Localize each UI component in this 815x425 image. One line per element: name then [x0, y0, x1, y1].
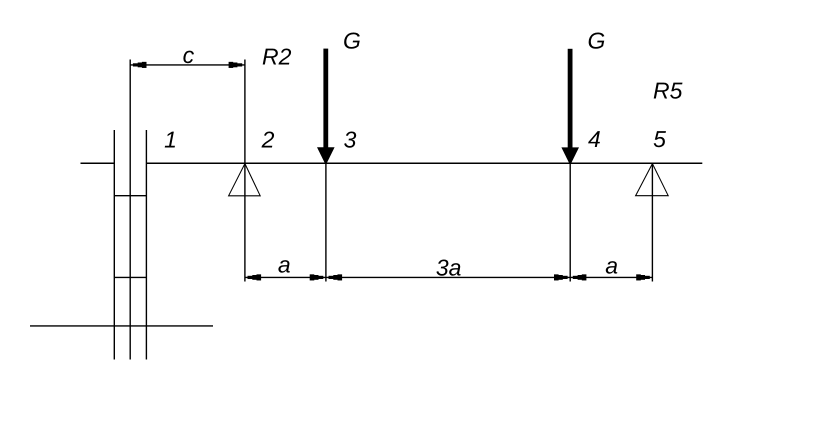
svg-text:4: 4	[588, 126, 601, 152]
ground line	[30, 325, 213, 327]
force G at node 4	[561, 49, 579, 163]
dimension line c	[130, 62, 245, 68]
svg-text:3a: 3a	[436, 255, 462, 281]
dimension label c	[183, 42, 195, 68]
node label 1	[164, 126, 177, 152]
extension line node 4	[569, 163, 571, 281]
node label 5	[653, 126, 666, 152]
extension line node 3	[325, 163, 327, 281]
support R2 triangle	[229, 164, 261, 196]
svg-text:a: a	[278, 251, 291, 277]
force G at node 3	[317, 49, 335, 163]
label G right	[588, 28, 606, 54]
node label 4	[588, 126, 601, 152]
shaft cross line upper	[114, 195, 146, 197]
label R5	[653, 77, 683, 103]
dimension line a 3a a	[245, 274, 653, 280]
svg-text:c: c	[183, 42, 195, 68]
svg-text:G: G	[343, 27, 361, 53]
svg-text:5: 5	[653, 126, 666, 152]
svg-text:G: G	[588, 28, 606, 54]
svg-text:R2: R2	[262, 44, 292, 70]
label R2	[262, 44, 292, 70]
shaft centerline	[129, 60, 131, 360]
node label 2	[261, 127, 275, 153]
label G left	[343, 27, 361, 53]
dimension label a right	[605, 253, 618, 279]
svg-text:a: a	[605, 253, 618, 279]
shaft left outer line	[113, 130, 115, 360]
beam	[146, 162, 702, 164]
dimension label 3a	[436, 255, 462, 281]
svg-text:3: 3	[344, 126, 357, 152]
node label 3	[344, 126, 357, 152]
extension line node 2	[244, 60, 246, 282]
svg-text:1: 1	[164, 126, 177, 152]
shaft cross line lower	[114, 276, 146, 278]
dimension label a left	[278, 251, 291, 277]
support R5 triangle	[636, 164, 669, 196]
extension line node 5	[651, 163, 653, 281]
svg-text:2: 2	[261, 127, 275, 153]
svg-text:R5: R5	[653, 77, 683, 103]
shaft right outer line	[145, 130, 147, 360]
beam left stub	[81, 162, 115, 164]
